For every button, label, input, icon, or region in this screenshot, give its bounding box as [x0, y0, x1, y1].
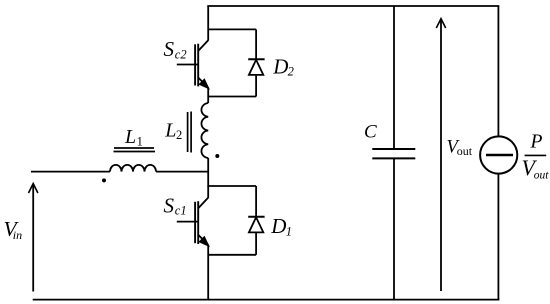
label D1	[270, 214, 292, 238]
svg-text:S: S	[164, 37, 175, 61]
wire: input wire right segment	[156, 171, 208, 173]
wire: input wire left segment	[31, 171, 110, 173]
capacitor C	[372, 149, 415, 158]
wire: right rail upper (top rail to source circle)	[497, 6, 499, 136]
wire: Sc1 emitter to D1 bottom junction	[207, 245, 209, 301]
wire: junction to D2 bottom	[208, 96, 256, 98]
wire: switch leg, top rail to Sc2 collector junction	[207, 6, 209, 41]
transistor Sc1 (IGBT)	[177, 186, 209, 246]
label L1	[124, 126, 143, 149]
svg-text:S: S	[164, 193, 175, 217]
label C	[364, 122, 377, 143]
label D2	[272, 54, 294, 78]
core bars of L2	[188, 112, 192, 153]
svg-text:1: 1	[286, 224, 292, 238]
svg-text:L: L	[164, 120, 176, 142]
current source U1 (constant power load P/Vout)	[480, 136, 517, 173]
svg-text:2: 2	[176, 128, 182, 142]
label P/Vout fraction	[522, 132, 550, 182]
diode D1	[248, 186, 264, 255]
transistor Sc2 (IGBT)	[177, 40, 209, 88]
svg-text:D: D	[270, 214, 286, 238]
svg-text:out: out	[534, 169, 550, 181]
polarity dot of L2	[215, 154, 219, 158]
core bars of L1	[114, 148, 156, 152]
inductor L2	[201, 103, 208, 158]
label Sc1	[164, 193, 187, 217]
label Sc2	[164, 37, 187, 62]
svg-text:in: in	[13, 228, 22, 242]
label Vin	[4, 217, 23, 242]
svg-text:D: D	[272, 54, 288, 78]
inductor L1	[110, 165, 156, 172]
wire: junction to D1 bottom	[208, 254, 256, 256]
wire: Sc2 emitter to D2 bottom junction	[207, 87, 209, 103]
wire: capacitor branch lower	[393, 158, 395, 300]
polarity dot of L1	[102, 178, 106, 182]
svg-text:C: C	[364, 122, 377, 143]
svg-text:out: out	[457, 144, 473, 158]
diode D2	[248, 29, 264, 96]
wire: junction to D2 top	[208, 28, 256, 30]
annotation arrow Vin	[29, 184, 38, 292]
wire: bottom rail	[33, 299, 500, 301]
wire: L2 bottom to input junction	[207, 158, 209, 187]
svg-text:1: 1	[137, 135, 143, 149]
wire: right rail lower (source circle to bottom rail)	[497, 174, 499, 301]
annotation arrow Vout	[436, 19, 445, 291]
svg-text:L: L	[124, 126, 136, 148]
wire: capacitor branch upper	[393, 6, 395, 149]
wire: top rail	[207, 5, 499, 7]
label Vout	[447, 137, 473, 158]
wire: junction to D1 top	[208, 185, 256, 187]
svg-text:c2: c2	[175, 47, 187, 61]
label L2	[164, 120, 182, 143]
svg-text:c1: c1	[175, 203, 187, 217]
svg-text:P: P	[530, 132, 543, 153]
svg-text:2: 2	[288, 65, 294, 79]
